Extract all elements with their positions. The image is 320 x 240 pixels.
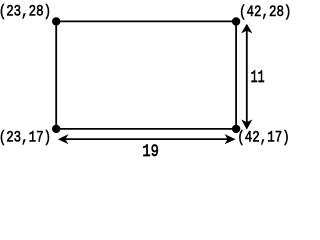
svg-text:(42,28): (42,28) [239, 4, 291, 22]
svg-text:(23,28): (23,28) [0, 3, 51, 21]
svg-text:19: 19 [142, 141, 159, 161]
vertical dimension arrowhead up [241, 24, 252, 34]
corner dot bottom-left [52, 125, 60, 133]
vertical dimension arrowhead down [241, 119, 252, 129]
svg-text:(42,17): (42,17) [237, 129, 289, 147]
rectangle bottom edge [56, 128, 236, 130]
rectangle right edge [235, 21, 237, 128]
rectangle left edge [55, 21, 57, 128]
horizontal dimension line [62, 138, 231, 140]
corner dot bottom-right [232, 125, 240, 133]
vertical dimension line [246, 28, 248, 125]
corner dot top-right [232, 17, 240, 25]
svg-text:11: 11 [251, 66, 265, 87]
horizontal dimension arrowhead right [225, 134, 236, 144]
corner dot top-left [52, 17, 60, 25]
svg-text:(23,17): (23,17) [0, 129, 51, 147]
rectangle top edge [56, 20, 236, 22]
horizontal dimension arrowhead left [58, 134, 69, 144]
